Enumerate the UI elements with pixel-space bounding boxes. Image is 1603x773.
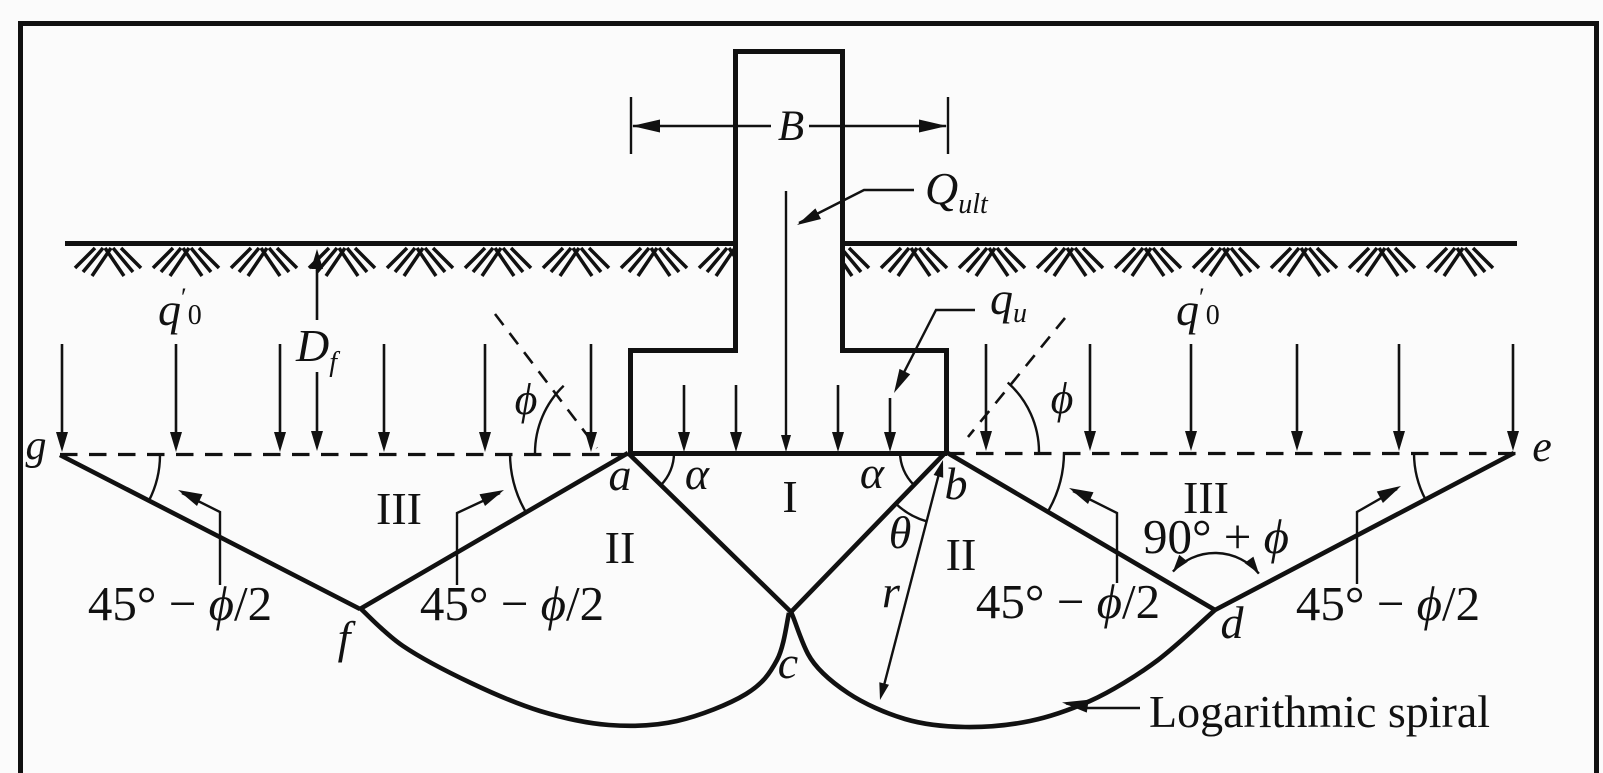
svg-text:II: II (605, 522, 636, 573)
svg-text:g: g (26, 423, 47, 469)
svg-text:d: d (1221, 597, 1245, 648)
svg-text:II: II (946, 529, 977, 580)
svg-text:45° − ϕ/2: 45° − ϕ/2 (88, 576, 272, 631)
svg-text:Logarithmic spiral: Logarithmic spiral (1149, 686, 1490, 737)
svg-text:c: c (778, 637, 798, 688)
svg-text:θ: θ (889, 507, 912, 558)
svg-text:a: a (609, 449, 632, 500)
svg-text:45° − ϕ/2: 45° − ϕ/2 (976, 574, 1160, 629)
svg-text:45° − ϕ/2: 45° − ϕ/2 (420, 576, 604, 631)
svg-text:b: b (945, 458, 968, 509)
svg-text:I: I (782, 471, 797, 522)
svg-text:ϕ: ϕ (515, 375, 538, 424)
svg-text:90° + ϕ: 90° + ϕ (1143, 509, 1289, 564)
svg-text:e: e (1532, 422, 1552, 471)
svg-text:45° − ϕ/2: 45° − ϕ/2 (1296, 576, 1480, 631)
svg-text:III: III (376, 483, 422, 534)
svg-text:ϕ: ϕ (1051, 374, 1074, 423)
svg-text:α: α (860, 447, 885, 498)
svg-text:r: r (882, 566, 901, 617)
svg-text:B: B (778, 103, 804, 150)
svg-text:α: α (685, 448, 710, 499)
